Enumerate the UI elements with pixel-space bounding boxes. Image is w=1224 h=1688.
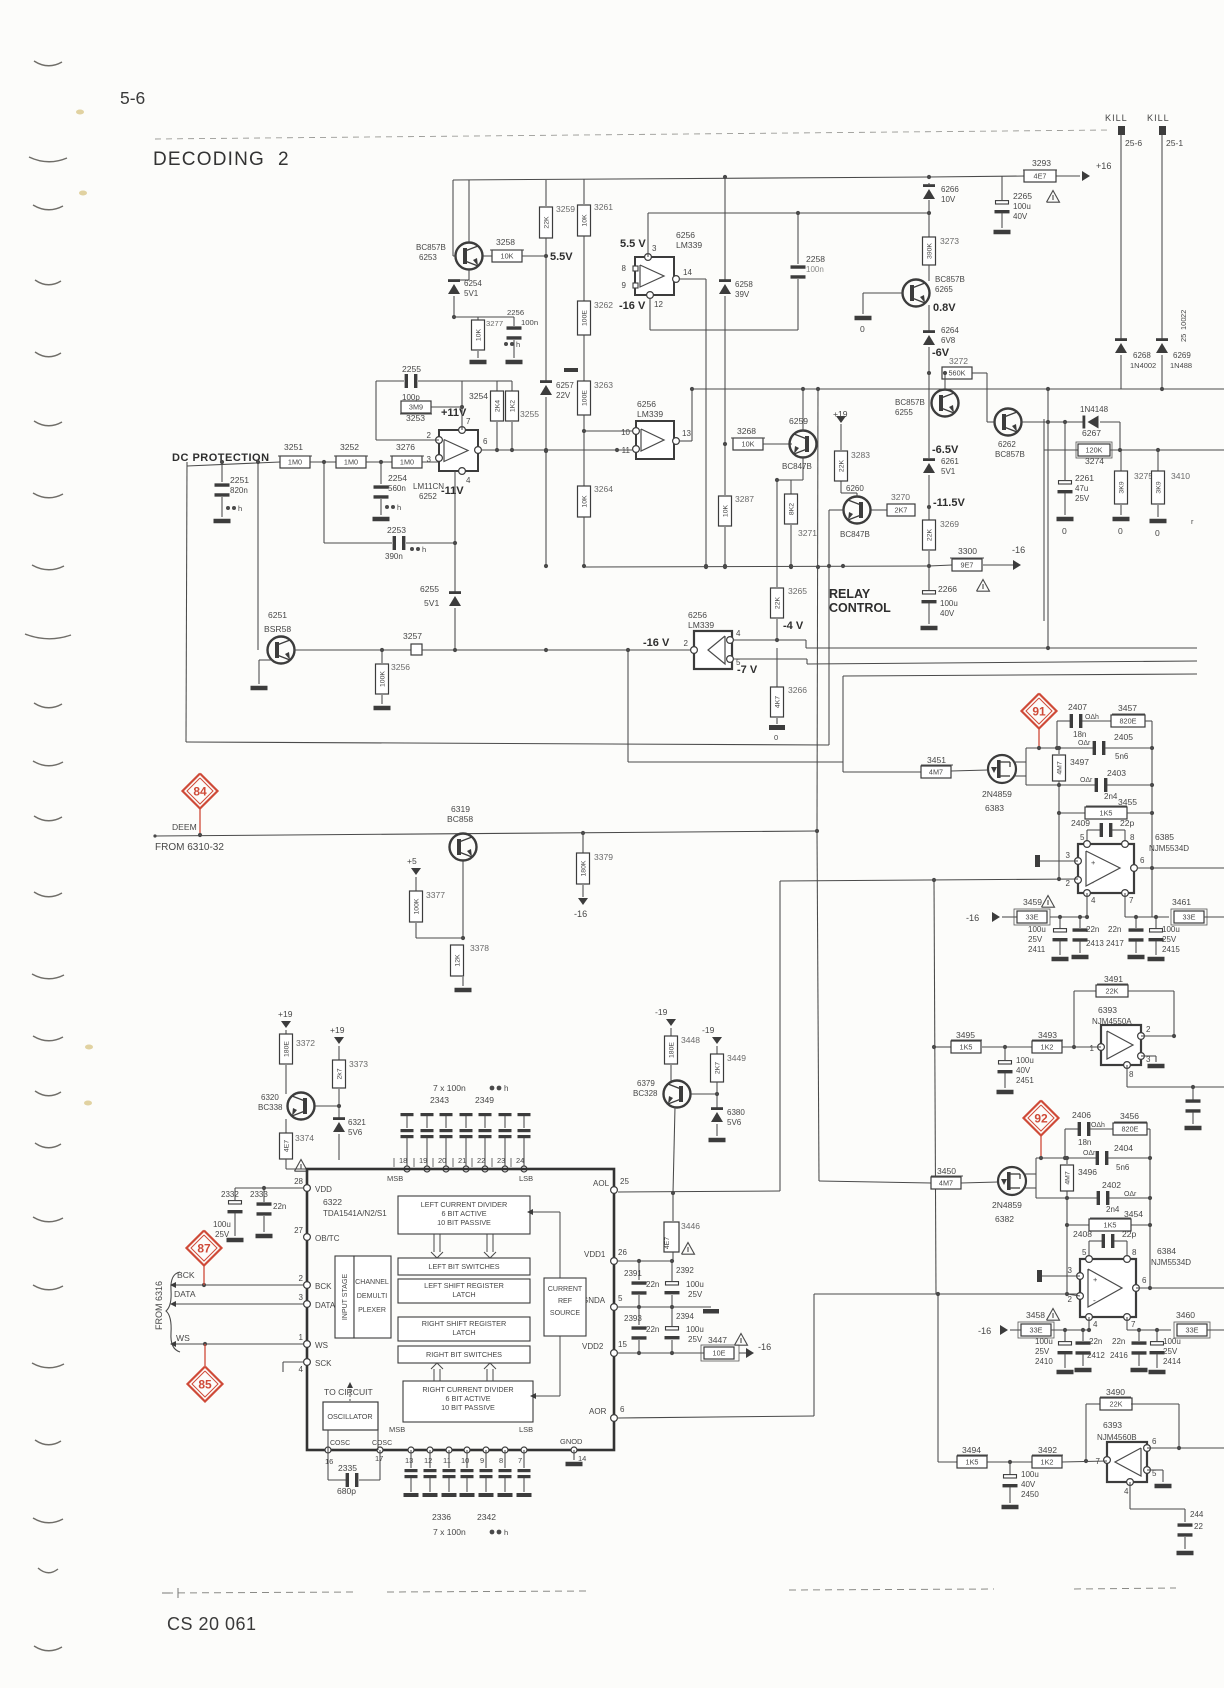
svg-text:-11V: -11V (441, 485, 464, 497)
svg-text:8: 8 (622, 264, 627, 273)
svg-text:100E: 100E (582, 310, 589, 326)
svg-text:22n: 22n (273, 1202, 286, 1211)
svg-text:h: h (504, 1528, 508, 1537)
svg-text:2408: 2408 (1073, 1229, 1092, 1239)
svg-text:3270: 3270 (891, 492, 910, 502)
svg-text:BC338: BC338 (258, 1103, 283, 1112)
svg-text:2255: 2255 (402, 364, 421, 374)
svg-text:5n6: 5n6 (1116, 1163, 1130, 1172)
svg-text:9E7: 9E7 (961, 560, 974, 569)
svg-text:22n: 22n (1089, 1337, 1102, 1346)
svg-text:2412: 2412 (1087, 1351, 1105, 1360)
svg-text:CHANNEL: CHANNEL (355, 1279, 389, 1286)
svg-text:3497: 3497 (1070, 757, 1089, 767)
svg-text:5V1: 5V1 (464, 289, 479, 298)
svg-text:6258: 6258 (735, 280, 753, 289)
svg-text:0: 0 (1062, 526, 1067, 536)
svg-text:2392: 2392 (676, 1266, 694, 1275)
svg-text:6256: 6256 (637, 399, 656, 409)
svg-text:12: 12 (424, 1456, 432, 1465)
svg-text:2391: 2391 (624, 1269, 642, 1278)
svg-text:5V1: 5V1 (941, 467, 956, 476)
svg-text:-19: -19 (702, 1025, 715, 1035)
svg-text:NJM4550A: NJM4550A (1092, 1017, 1132, 1026)
svg-text:1: 1 (299, 1333, 304, 1342)
svg-text:5V1: 5V1 (424, 598, 439, 608)
svg-text:39V: 39V (735, 290, 750, 299)
svg-text:2406: 2406 (1072, 1110, 1091, 1120)
svg-text:22: 22 (1194, 1522, 1203, 1531)
svg-text:3255: 3255 (520, 409, 539, 419)
svg-text:26: 26 (618, 1248, 627, 1257)
svg-text:KILL: KILL (1147, 113, 1170, 123)
svg-text:2: 2 (427, 431, 432, 440)
svg-text:6: 6 (1142, 1276, 1147, 1285)
svg-text:4: 4 (299, 1365, 304, 1374)
svg-text:6255: 6255 (895, 408, 913, 417)
svg-text:SCK: SCK (315, 1359, 332, 1368)
svg-text:DEEM: DEEM (172, 822, 197, 832)
svg-text:100E: 100E (582, 390, 589, 406)
svg-text:180E: 180E (284, 1041, 291, 1057)
svg-text:2335: 2335 (338, 1463, 357, 1473)
svg-text:1K5: 1K5 (966, 1457, 979, 1466)
svg-text:2251: 2251 (230, 475, 249, 485)
svg-text:22n: 22n (1086, 925, 1099, 934)
svg-text:40V: 40V (1021, 1480, 1036, 1489)
svg-text:84: 84 (193, 785, 207, 799)
svg-text:3265: 3265 (788, 586, 807, 596)
svg-text:22n: 22n (646, 1325, 659, 1334)
svg-text:3372: 3372 (296, 1038, 315, 1048)
svg-text:6384: 6384 (1157, 1246, 1176, 1256)
svg-text:2409: 2409 (1071, 818, 1090, 828)
svg-text:3262: 3262 (594, 300, 613, 310)
svg-text:15: 15 (618, 1340, 627, 1349)
svg-text:5V6: 5V6 (727, 1118, 742, 1127)
svg-text:3449: 3449 (727, 1053, 746, 1063)
svg-text:LSB: LSB (519, 1425, 533, 1434)
svg-text:3448: 3448 (681, 1035, 700, 1045)
svg-text:0.8V: 0.8V (933, 302, 956, 314)
svg-text:2: 2 (299, 1274, 304, 1283)
svg-text:2N4859: 2N4859 (982, 789, 1012, 799)
svg-text:4K7: 4K7 (775, 696, 782, 708)
svg-text:+: + (1093, 1275, 1097, 1284)
svg-text:h: h (516, 340, 520, 349)
svg-text:4: 4 (1124, 1487, 1129, 1496)
svg-text:10K: 10K (476, 328, 483, 341)
svg-text:6261: 6261 (941, 457, 959, 466)
svg-text:+: + (1091, 858, 1095, 867)
svg-text:25: 25 (1179, 334, 1188, 342)
svg-text:100K: 100K (380, 671, 387, 687)
svg-text:6: 6 (1152, 1437, 1157, 1446)
svg-text:NJM5534D: NJM5534D (1151, 1258, 1191, 1267)
svg-text:3492: 3492 (1038, 1445, 1057, 1455)
svg-text:1M0: 1M0 (344, 457, 358, 466)
svg-text:18: 18 (399, 1156, 407, 1165)
svg-text:LEFT SHIFT REGISTER: LEFT SHIFT REGISTER (424, 1281, 504, 1290)
svg-text:6266: 6266 (941, 185, 959, 194)
svg-text:1K2: 1K2 (1041, 1457, 1054, 1466)
svg-text:2407: 2407 (1068, 702, 1087, 712)
svg-text:0: 0 (860, 324, 865, 334)
svg-text:2K4: 2K4 (495, 400, 502, 412)
svg-text:3M9: 3M9 (409, 402, 423, 411)
svg-text:6259: 6259 (789, 416, 808, 426)
svg-text:DATA: DATA (315, 1301, 336, 1310)
svg-text:CURRENT: CURRENT (548, 1286, 583, 1293)
svg-text:6262: 6262 (998, 440, 1016, 449)
svg-text:5n6: 5n6 (1115, 752, 1129, 761)
svg-text:25V: 25V (1075, 494, 1090, 503)
svg-text:2410: 2410 (1035, 1357, 1053, 1366)
svg-text:120K: 120K (1086, 445, 1103, 454)
svg-text:22: 22 (477, 1156, 485, 1165)
svg-text:NJM4560B: NJM4560B (1097, 1433, 1137, 1442)
svg-text:22n: 22n (1108, 925, 1121, 934)
svg-text:3252: 3252 (340, 442, 359, 452)
svg-text:85: 85 (198, 1378, 212, 1392)
svg-text:4M7: 4M7 (1057, 761, 1064, 775)
svg-text:92: 92 (1034, 1112, 1048, 1126)
svg-text:2332: 2332 (221, 1190, 239, 1199)
svg-text:21: 21 (458, 1156, 466, 1165)
svg-text:2451: 2451 (1016, 1076, 1034, 1085)
svg-text:18n: 18n (1078, 1138, 1091, 1147)
svg-text:6257: 6257 (556, 381, 574, 390)
svg-text:14: 14 (578, 1454, 586, 1463)
svg-text:3300: 3300 (958, 546, 977, 556)
svg-text:10 BIT PASSIVE: 10 BIT PASSIVE (437, 1218, 491, 1227)
svg-text:5V6: 5V6 (348, 1128, 363, 1137)
svg-text:2343: 2343 (430, 1095, 449, 1105)
svg-text:6393: 6393 (1098, 1005, 1117, 1015)
svg-text:680p: 680p (337, 1486, 356, 1496)
svg-text:3264: 3264 (594, 484, 613, 494)
svg-text:14: 14 (683, 268, 692, 277)
svg-text:INPUT STAGE: INPUT STAGE (342, 1274, 349, 1321)
svg-text:-16: -16 (574, 909, 587, 919)
svg-text:4: 4 (1093, 1320, 1098, 1329)
svg-text:0: 0 (1155, 528, 1160, 538)
svg-text:2253: 2253 (387, 525, 406, 535)
svg-text:6253: 6253 (419, 253, 437, 262)
svg-text:91: 91 (1032, 705, 1046, 719)
svg-text:13: 13 (682, 429, 691, 438)
svg-text:22V: 22V (556, 391, 571, 400)
svg-text:3256: 3256 (391, 662, 410, 672)
svg-text:3261: 3261 (594, 202, 613, 212)
svg-text:100u: 100u (940, 599, 958, 608)
svg-text:25V: 25V (688, 1290, 703, 1299)
svg-text:100K: 100K (414, 898, 421, 914)
svg-text:2393: 2393 (624, 1314, 642, 1323)
svg-text:3253: 3253 (406, 413, 425, 423)
svg-text:3460: 3460 (1176, 1310, 1195, 1320)
svg-text:2n4: 2n4 (1106, 1205, 1120, 1214)
svg-text:16: 16 (325, 1457, 333, 1466)
svg-text:820E: 820E (1120, 716, 1137, 725)
svg-text:3259: 3259 (556, 204, 575, 214)
svg-text:r: r (1191, 517, 1194, 526)
svg-text:MSB: MSB (389, 1425, 405, 1434)
svg-text:2402: 2402 (1102, 1180, 1121, 1190)
svg-text:10K: 10K (582, 495, 589, 508)
svg-text:2: 2 (684, 639, 689, 648)
svg-text:22K: 22K (1110, 1399, 1123, 1408)
svg-text:1K5: 1K5 (1104, 1220, 1117, 1229)
svg-text:GNOD: GNOD (560, 1437, 583, 1446)
svg-text:100u: 100u (686, 1325, 704, 1334)
svg-text:BC857B: BC857B (935, 275, 965, 284)
svg-text:4: 4 (466, 476, 471, 485)
svg-text:0: 0 (1118, 526, 1123, 536)
svg-text:BC328: BC328 (633, 1089, 658, 1098)
svg-text:2413: 2413 (1086, 939, 1104, 948)
svg-text:3: 3 (1068, 1266, 1073, 1275)
svg-text:2416: 2416 (1110, 1351, 1128, 1360)
svg-text:COSC: COSC (372, 1440, 392, 1447)
svg-text:6267: 6267 (1082, 428, 1101, 438)
svg-text:560n: 560n (388, 484, 406, 493)
svg-text:5: 5 (618, 1294, 623, 1303)
svg-text:2: 2 (1066, 879, 1071, 888)
svg-text:100u: 100u (1016, 1056, 1034, 1065)
svg-text:MSB: MSB (387, 1174, 403, 1183)
svg-text:2403: 2403 (1107, 768, 1126, 778)
svg-text:3274: 3274 (1085, 456, 1104, 466)
svg-text:100n: 100n (521, 318, 538, 327)
svg-text:3490: 3490 (1106, 1387, 1125, 1397)
svg-text:BC847B: BC847B (782, 462, 812, 471)
svg-text:OΔh: OΔh (1085, 714, 1099, 721)
svg-text:25V: 25V (1163, 1347, 1178, 1356)
svg-text:22K: 22K (1106, 986, 1119, 995)
svg-text:0: 0 (774, 733, 778, 742)
svg-text:6269: 6269 (1173, 351, 1191, 360)
svg-text:6256: 6256 (676, 230, 695, 240)
svg-text:6319: 6319 (451, 804, 470, 814)
svg-text:100u: 100u (686, 1280, 704, 1289)
svg-text:-16: -16 (758, 1342, 771, 1352)
svg-text:22: 22 (1179, 310, 1188, 318)
svg-text:TDA1541A/N2/S1: TDA1541A/N2/S1 (323, 1209, 387, 1218)
svg-text:BC857B: BC857B (416, 243, 446, 252)
svg-text:3378: 3378 (470, 943, 489, 953)
svg-text:BC847B: BC847B (840, 530, 870, 539)
svg-text:LEFT BIT SWITCHES: LEFT BIT SWITCHES (428, 1262, 499, 1271)
svg-text:100u: 100u (1162, 925, 1180, 934)
svg-text:-16 V: -16 V (643, 637, 670, 649)
svg-text:CONTROL: CONTROL (829, 601, 891, 615)
svg-text:20: 20 (438, 1156, 446, 1165)
svg-text:h: h (422, 545, 426, 554)
svg-text:VDD1: VDD1 (584, 1250, 606, 1259)
svg-text:DECODING 2: DECODING 2 (153, 149, 290, 170)
svg-text:390K: 390K (927, 243, 934, 259)
svg-text:25-1: 25-1 (1166, 138, 1183, 148)
svg-text:100u: 100u (1013, 202, 1031, 211)
svg-text:33E: 33E (1183, 912, 1196, 921)
svg-text:2415: 2415 (1162, 945, 1180, 954)
svg-text:3: 3 (652, 244, 657, 253)
svg-text:FROM 6310-32: FROM 6310-32 (155, 842, 224, 853)
svg-text:6 BIT ACTIVE: 6 BIT ACTIVE (445, 1394, 490, 1403)
svg-text:3450: 3450 (937, 1166, 956, 1176)
svg-text:RIGHT CURRENT DIVIDER: RIGHT CURRENT DIVIDER (422, 1385, 513, 1394)
svg-text:9: 9 (480, 1456, 484, 1465)
svg-text:2450: 2450 (1021, 1490, 1039, 1499)
svg-text:3: 3 (299, 1293, 304, 1302)
svg-text:3495: 3495 (956, 1030, 975, 1040)
svg-text:LSB: LSB (519, 1174, 533, 1183)
svg-text:1K2: 1K2 (1041, 1042, 1054, 1051)
svg-text:3268: 3268 (737, 426, 756, 436)
svg-text:3447: 3447 (708, 1335, 727, 1345)
svg-text:h: h (238, 504, 242, 513)
svg-text:6265: 6265 (935, 285, 953, 294)
svg-text:10K: 10K (501, 251, 514, 260)
svg-text:47u: 47u (1075, 484, 1088, 493)
svg-text:2K7: 2K7 (715, 1062, 722, 1074)
svg-text:3257: 3257 (403, 631, 422, 641)
svg-text:3446: 3446 (681, 1221, 700, 1231)
svg-text:560K: 560K (949, 368, 966, 377)
svg-text:7 x 100n: 7 x 100n (433, 1527, 466, 1537)
svg-text:PLEXER: PLEXER (358, 1307, 386, 1314)
svg-text:6 BIT ACTIVE: 6 BIT ACTIVE (441, 1209, 486, 1218)
svg-text:-11.5V: -11.5V (933, 497, 965, 509)
svg-text:3K9: 3K9 (1156, 481, 1163, 493)
svg-text:VDD2: VDD2 (582, 1342, 604, 1351)
svg-text:OΔr: OΔr (1083, 1150, 1096, 1157)
svg-text:-16: -16 (1012, 545, 1025, 555)
svg-text:4: 4 (736, 629, 741, 638)
svg-text:40V: 40V (1013, 212, 1028, 221)
svg-text:10: 10 (461, 1456, 469, 1465)
svg-text:6264: 6264 (941, 326, 959, 335)
svg-text:3287: 3287 (735, 494, 754, 504)
svg-text:10K: 10K (582, 214, 589, 227)
svg-text:7: 7 (1129, 896, 1134, 905)
svg-text:22p: 22p (1122, 1229, 1137, 1239)
svg-text:1K5: 1K5 (1100, 808, 1113, 817)
svg-text:7: 7 (466, 417, 471, 426)
svg-text:3461: 3461 (1172, 897, 1191, 907)
svg-text:KILL: KILL (1105, 113, 1128, 123)
svg-text:3266: 3266 (788, 685, 807, 695)
svg-text:8: 8 (1129, 1070, 1134, 1079)
svg-text:3263: 3263 (594, 380, 613, 390)
svg-text:100u: 100u (1021, 1470, 1039, 1479)
svg-text:2: 2 (1068, 1295, 1073, 1304)
svg-text:24: 24 (516, 1156, 524, 1165)
svg-text:2254: 2254 (388, 473, 407, 483)
svg-text:DEMULTI: DEMULTI (357, 1293, 387, 1300)
svg-text:100: 100 (1179, 318, 1188, 331)
svg-text:RIGHT BIT SWITCHES: RIGHT BIT SWITCHES (426, 1350, 502, 1359)
svg-text:3494: 3494 (962, 1445, 981, 1455)
svg-text:6: 6 (1140, 856, 1145, 865)
svg-text:12: 12 (654, 300, 663, 309)
svg-text:3459: 3459 (1023, 897, 1042, 907)
svg-text:WS: WS (315, 1341, 328, 1350)
svg-text:8: 8 (499, 1456, 503, 1465)
svg-text:10E: 10E (713, 1348, 726, 1357)
svg-text:h: h (397, 503, 401, 512)
svg-text:4E7: 4E7 (1034, 171, 1047, 180)
svg-text:8: 8 (1132, 1248, 1137, 1257)
svg-text:6268: 6268 (1133, 351, 1151, 360)
svg-text:4M7: 4M7 (939, 1178, 953, 1187)
svg-text:+11V: +11V (441, 407, 467, 419)
svg-text:2k7: 2k7 (337, 1068, 344, 1079)
svg-text:3377: 3377 (426, 890, 445, 900)
svg-text:1M0: 1M0 (400, 457, 414, 466)
svg-text:3493: 3493 (1038, 1030, 1057, 1040)
svg-text:1K2: 1K2 (510, 400, 517, 412)
svg-text:2N4859: 2N4859 (992, 1200, 1022, 1210)
svg-text:8: 8 (1130, 833, 1135, 842)
svg-text:LM339: LM339 (688, 620, 714, 630)
svg-text:BSR58: BSR58 (264, 624, 291, 634)
svg-text:1: 1 (1090, 1044, 1095, 1053)
svg-text:1K5: 1K5 (960, 1042, 973, 1051)
svg-text:22K: 22K (544, 216, 551, 229)
svg-text:17: 17 (375, 1454, 383, 1463)
svg-text:6: 6 (620, 1405, 625, 1414)
svg-text:2417: 2417 (1106, 939, 1124, 948)
svg-text:OSCILLATOR: OSCILLATOR (327, 1412, 372, 1421)
svg-text:2256: 2256 (507, 308, 524, 317)
svg-text:1M0: 1M0 (288, 457, 302, 466)
svg-text:12K: 12K (455, 954, 462, 967)
svg-text:6260: 6260 (846, 484, 864, 493)
svg-text:-19: -19 (655, 1007, 668, 1017)
svg-text:2258: 2258 (806, 254, 825, 264)
svg-text:22n: 22n (646, 1280, 659, 1289)
svg-text:22K: 22K (927, 528, 934, 541)
svg-text:-16: -16 (978, 1326, 991, 1336)
svg-text:+19: +19 (330, 1025, 345, 1035)
svg-text:11: 11 (443, 1456, 451, 1465)
svg-text:4M7: 4M7 (1065, 1171, 1072, 1185)
svg-text:3251: 3251 (284, 442, 303, 452)
svg-text:5-6: 5-6 (120, 88, 145, 108)
svg-text:2265: 2265 (1013, 191, 1032, 201)
svg-text:100u: 100u (1035, 1337, 1053, 1346)
svg-text:33E: 33E (1030, 1325, 1043, 1334)
svg-text:4M7: 4M7 (929, 767, 943, 776)
svg-text:3276: 3276 (396, 442, 415, 452)
svg-text:27: 27 (294, 1226, 303, 1235)
svg-text:3451: 3451 (927, 755, 946, 765)
svg-text:OΔr: OΔr (1080, 777, 1093, 784)
svg-text:7 x 100n: 7 x 100n (433, 1083, 466, 1093)
svg-text:WS: WS (176, 1333, 190, 1343)
svg-text:3254: 3254 (469, 391, 488, 401)
svg-text:33E: 33E (1026, 912, 1039, 921)
svg-text:3258: 3258 (496, 237, 515, 247)
svg-text:25V: 25V (688, 1335, 703, 1344)
svg-text:3283: 3283 (851, 450, 870, 460)
svg-text:6322: 6322 (323, 1197, 342, 1207)
svg-text:18n: 18n (1073, 730, 1086, 739)
svg-text:2333: 2333 (250, 1190, 268, 1199)
svg-text:3273: 3273 (940, 236, 959, 246)
